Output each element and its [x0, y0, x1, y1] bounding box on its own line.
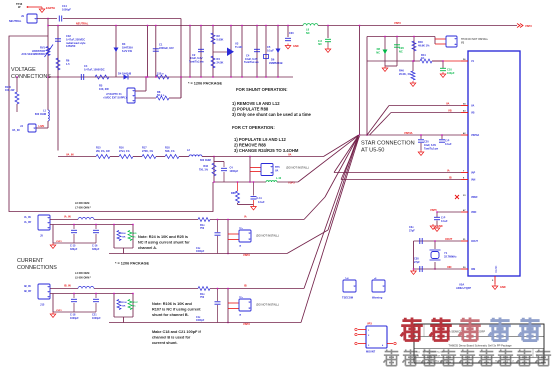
pin MOUNT 3 — [355, 342, 366, 344]
wire subckt top — [367, 36, 435, 38]
svg-text:20.0K, 1%: 20.0K, 1% — [399, 72, 412, 76]
wire chA vsp3 diag — [287, 136, 359, 254]
svg-text:2200uF, 16V: 2200uF, 16V — [159, 46, 174, 50]
pin VB — [461, 110, 475, 115]
label IB_IN input — [24, 284, 32, 293]
wire star to VB — [370, 113, 392, 136]
net label LIVE — [39, 124, 45, 128]
svg-text:125/250: 125/250 — [66, 44, 76, 48]
svg-text:AVX-VE24M00580K: AVX-VE24M00580K — [21, 52, 45, 56]
svg-text:(DO NOT INSTALL): (DO NOT INSTALL) — [256, 303, 279, 307]
svg-text:Make C18 and C21 100pF if: Make C18 and C21 100pF if — [152, 330, 201, 334]
svg-text:VSP3: VSP3 — [525, 24, 532, 28]
svg-text:R106: R106 — [122, 302, 128, 304]
svg-text:1) POPULATE L9 AND L12: 1) POPULATE L9 AND L12 — [234, 137, 287, 142]
svg-text:FOR CT OPERATION:: FOR CT OPERATION: — [232, 125, 275, 130]
net label chA ia — [244, 215, 247, 219]
inductor L1 — [35, 109, 49, 122]
wire rail IAN — [341, 136, 461, 180]
note ct 3 — [234, 148, 299, 153]
svg-text:0.47uF, 250VDC: 0.47uF, 250VDC — [66, 37, 85, 41]
svg-text:NC: NC — [133, 236, 137, 238]
capacitor C4 tant — [244, 49, 260, 64]
svg-text:AD62+TQFP: AD62+TQFP — [456, 286, 471, 290]
wire divider to header — [213, 157, 215, 183]
svg-text:(DO NOT INSTALL): (DO NOT INSTALL) — [286, 166, 309, 170]
svg-text:27pF: 27pF — [414, 261, 420, 264]
resistor R6 — [56, 58, 70, 70]
inductor L2 — [187, 149, 214, 162]
svg-text:D4 1N4148: D4 1N4148 — [118, 72, 132, 76]
svg-text:VA: VA — [471, 105, 474, 108]
wire chA second — [50, 224, 133, 226]
connector J5 — [38, 215, 50, 238]
connector TSECOM — [342, 278, 356, 300]
pin IAN — [461, 178, 476, 182]
varistor RV1 — [45, 45, 54, 58]
svg-text:VB: VB — [471, 112, 475, 115]
wire C6nc column — [327, 25, 328, 38]
ground crystal top — [430, 224, 443, 230]
svg-text:32.768kHz: 32.768kHz — [444, 254, 457, 258]
wire subckt gnd — [382, 66, 397, 72]
svg-text:27pF: 27pF — [409, 229, 415, 232]
pin MOUNT 1 — [355, 328, 366, 330]
svg-text:C1: C1 — [159, 43, 163, 47]
svg-text:2: 2 — [368, 335, 370, 337]
wire chA vsp3 rail — [109, 248, 287, 257]
connector J4 — [12, 124, 36, 132]
wire VA header vert — [249, 157, 251, 183]
svg-text:R25: R25 — [133, 233, 138, 235]
svg-text:330pF: 330pF — [92, 248, 100, 251]
svg-text:NEUTRAL: NEUTRAL — [9, 19, 22, 23]
svg-text:U5A: U5A — [459, 283, 464, 287]
svg-text:VA_IN: VA_IN — [66, 153, 74, 157]
svg-text:Note: R106 is 10K and: Note: R106 is 10K and — [152, 302, 193, 306]
svg-text:IB_IN: IB_IN — [24, 284, 31, 288]
inductor chA filter — [78, 218, 94, 220]
label 1206 package bottom — [115, 262, 149, 266]
test point TP16 label — [16, 2, 23, 9]
svg-text:1000pF: 1000pF — [92, 317, 101, 320]
svg-text:NC: NC — [399, 49, 403, 53]
svg-text:VREF: VREF — [471, 196, 478, 199]
connector TP5 VA header — [261, 164, 309, 176]
svg-text:C4: C4 — [246, 53, 250, 57]
capacitor C37 — [409, 226, 422, 244]
note chA 0 — [138, 235, 188, 239]
svg-text:D6: D6 — [271, 57, 275, 61]
svg-text:600 OHM: 600 OHM — [200, 159, 211, 162]
svg-text:5.05K: 5.05K — [217, 37, 224, 41]
note chB 0 — [152, 302, 193, 306]
svg-text:J15: J15 — [40, 303, 45, 307]
note ct 2 — [234, 143, 267, 148]
svg-text:R107 is NC if using current: R107 is NC if using current — [152, 308, 201, 312]
svg-text:L8: L8 — [306, 28, 310, 32]
connector J7 — [103, 88, 135, 103]
wire crystal left — [413, 241, 415, 269]
svg-text:VSP3A: VSP3A — [471, 134, 479, 137]
wire header V1 stubs — [435, 37, 446, 45]
pin MOUNT 4 — [387, 342, 396, 344]
svg-text:IA: IA — [239, 313, 242, 316]
capacitor C4 — [81, 64, 104, 80]
svg-text:* = 1206 PACKAGE: * = 1206 PACKAGE — [115, 262, 149, 266]
wire C30 column — [287, 25, 288, 37]
wire rail VSP3A — [360, 131, 462, 135]
svg-text:NEUTRAL: NEUTRAL — [76, 21, 89, 25]
wire chB vsp3 diag — [301, 137, 359, 323]
svg-text:R46: R46 — [399, 69, 404, 73]
IC U5 ADE7758 — [456, 51, 520, 290]
connector TP15 V1 — [446, 36, 489, 47]
pin IAP — [461, 171, 476, 175]
resistor R110 — [5, 76, 19, 112]
note chB 2 — [152, 313, 189, 317]
connector chA header — [239, 228, 279, 247]
wire chA sig diag — [304, 136, 359, 220]
svg-text:V1: V1 — [461, 41, 465, 44]
svg-text:C2: C2 — [192, 53, 196, 57]
svg-text:VA_IN: VA_IN — [12, 128, 20, 132]
resistor R24 — [117, 231, 126, 241]
svg-text:+5VDC EXT SUPPLY: +5VDC EXT SUPPLY — [103, 96, 127, 99]
ground C6 — [325, 47, 331, 53]
connector MOUNT — [366, 323, 387, 354]
svg-text:1000pF: 1000pF — [196, 319, 205, 322]
zener D6 — [269, 49, 283, 65]
svg-text:NC: NC — [318, 42, 322, 46]
capacitor chA series — [196, 219, 221, 254]
svg-text:IA_IN': IA_IN' — [24, 220, 32, 224]
resistor R32 — [199, 163, 216, 176]
net label VSP3 va — [288, 181, 295, 185]
wire chB gnd rail — [50, 294, 96, 318]
svg-text:24.5K: 24.5K — [217, 60, 224, 64]
svg-text:AT U5-50: AT U5-50 — [361, 148, 384, 154]
resistor R25 — [128, 231, 137, 241]
svg-text:VB: VB — [448, 108, 452, 112]
wire R8 up — [169, 76, 182, 98]
ground C30 — [285, 44, 299, 50]
svg-text:IB_IN': IB_IN' — [24, 289, 32, 293]
svg-text:IA: IA — [447, 168, 450, 172]
pin VDD — [461, 209, 476, 214]
capacitor C5 — [264, 45, 275, 59]
svg-text:ZMM5231B: ZMM5231B — [269, 61, 283, 65]
ground crystal bottom — [411, 268, 417, 274]
svg-text:10K: 10K — [122, 236, 126, 238]
note chB 1 — [152, 308, 201, 312]
svg-text:2M, 1%, 1W: 2M, 1%, 1W — [96, 150, 110, 153]
svg-text:0.1uF: 0.1uF — [441, 220, 448, 223]
note chA 1 — [138, 241, 190, 245]
svg-text:9: 9 — [492, 280, 494, 282]
svg-text:channel A.: channel A. — [138, 246, 157, 250]
resistor R8 — [156, 90, 169, 100]
note shunt 2 — [232, 107, 269, 112]
svg-text:NC if using current shunt for: NC if using current shunt for — [138, 241, 190, 245]
net label IB_IN — [64, 284, 71, 288]
resistor R5 — [95, 75, 109, 91]
svg-text:L1: L1 — [43, 109, 47, 113]
svg-text:33: 33 — [463, 195, 466, 197]
svg-text:IAN: IAN — [471, 179, 476, 182]
diode D4 — [118, 72, 132, 80]
svg-text:Y1: Y1 — [444, 251, 448, 255]
wire chB header stub — [227, 288, 239, 323]
capacitor C32 — [55, 34, 86, 48]
svg-text:R6: R6 — [66, 59, 70, 63]
svg-text:750: 750 — [200, 227, 205, 230]
svg-text:D8: D8 — [377, 47, 381, 51]
svg-text:C-11: C-11 — [257, 197, 263, 200]
svg-text:J4: J4 — [20, 124, 23, 128]
svg-text:* = 1206 PACKAGE: * = 1206 PACKAGE — [188, 82, 222, 86]
svg-text:DGND: DGND — [495, 265, 498, 273]
note shunt 3 — [232, 112, 312, 117]
svg-text:2) POPULATE R88: 2) POPULATE R88 — [232, 107, 269, 112]
connector J9 — [9, 14, 37, 23]
wire rail IAP — [334, 136, 461, 173]
wire star feed 2 — [366, 37, 367, 136]
capacitor C10 — [440, 60, 455, 77]
svg-text:TL431: TL431 — [235, 45, 243, 49]
svg-text:J5: J5 — [40, 234, 43, 238]
wire star feed — [359, 25, 360, 136]
svg-text:10uF, 6.3V: 10uF, 6.3V — [190, 56, 203, 60]
svg-text:Tant/TaJ.uw: Tant/TaJ.uw — [424, 147, 438, 150]
svg-text:VDD: VDD — [471, 211, 476, 214]
svg-text:GND: GND — [437, 225, 443, 228]
wire VA bottom rail — [213, 181, 266, 182]
svg-text:10K: 10K — [122, 305, 126, 307]
svg-text:EARTH: EARTH — [46, 6, 55, 10]
svg-text:600 OHM: 600 OHM — [35, 112, 46, 116]
svg-text:Warning: Warning — [372, 296, 383, 300]
svg-text:NC: NC — [306, 31, 310, 35]
pin MOUNT 2 — [355, 333, 366, 335]
connector chB header — [239, 297, 279, 316]
wire r88 gnd — [238, 203, 257, 210]
wire rail NEUTRAL — [48, 19, 303, 26]
pin VREF no-connect — [455, 195, 478, 199]
svg-text:VSP3: VSP3 — [56, 241, 62, 243]
wire chA gnd rail — [50, 225, 96, 249]
inductor L8 — [303, 24, 318, 35]
svg-text:VP3: VP3 — [367, 323, 372, 326]
capacitor C14 — [59, 4, 71, 22]
wire chB top — [50, 288, 304, 290]
resistor chA shunt-sel box — [113, 224, 133, 248]
svg-text:Note: R24 is 10K and R25 is: Note: R24 is 10K and R25 is — [138, 235, 188, 239]
wire supply column x231 — [230, 25, 231, 78]
svg-text:GND: GND — [293, 45, 299, 48]
wire VA sig diag — [324, 135, 359, 157]
wire TP16 to earth — [27, 6, 42, 8]
svg-text:LIVE: LIVE — [39, 124, 45, 128]
capacitor C2 — [189, 49, 205, 63]
net label IA_IN — [64, 215, 71, 219]
svg-text:L2: L2 — [187, 149, 191, 152]
ground EARTH — [39, 6, 55, 13]
capacitor chB series — [196, 288, 221, 323]
svg-text:750: 750 — [200, 296, 205, 299]
svg-text:150 o: 150 o — [157, 72, 164, 76]
note ct operation — [232, 125, 275, 130]
resistor R15 — [96, 147, 119, 159]
wire J4 to column — [36, 121, 48, 128]
svg-text:L7 600 OHM *: L7 600 OHM * — [75, 207, 91, 210]
label 1206 package top — [188, 82, 222, 86]
resistor R17 — [142, 147, 165, 159]
svg-text:CONNECTIONS: CONNECTIONS — [17, 265, 57, 271]
svg-text:R40: R40 — [418, 40, 423, 44]
resistor R107 — [128, 300, 139, 310]
wire divider rail — [58, 153, 96, 157]
note chB 3 — [152, 330, 201, 334]
wire J7 pin1 — [135, 76, 147, 91]
svg-text:IA: IA — [244, 215, 247, 219]
wire D3 column — [115, 25, 116, 77]
wire star to VA — [367, 106, 389, 136]
svg-text:1000pF: 1000pF — [70, 317, 79, 320]
svg-text:330pF: 330pF — [70, 248, 78, 251]
svg-text:6.2V 1W: 6.2V 1W — [122, 49, 132, 53]
svg-text:IA_IN: IA_IN — [64, 215, 71, 219]
svg-text:R2: R2 — [217, 34, 221, 38]
svg-text:1000pF: 1000pF — [62, 7, 71, 11]
svg-text:TH8035 Demo Board Schematic Se: TH8035 Demo Board Schematic Self 3x PP P… — [448, 344, 512, 348]
svg-text:0.47uF, 1000VDC: 0.47uF, 1000VDC — [84, 67, 105, 71]
svg-text:radial lead style: radial lead style — [66, 41, 86, 45]
svg-text:IA: IA — [239, 244, 242, 247]
svg-text:100, 2W: 100, 2W — [99, 87, 109, 91]
svg-text:1K: 1K — [421, 56, 424, 60]
wire VA sig rail — [213, 152, 323, 157]
svg-text:Date:: Date: — [416, 360, 422, 363]
svg-text:270K, 1%: 270K, 1% — [142, 150, 154, 153]
connector Warning — [372, 278, 385, 300]
svg-text:0.1uF: 0.1uF — [258, 201, 265, 204]
wire va vsp3 diag — [277, 135, 359, 182]
capacitor chA c-b — [92, 224, 100, 251]
svg-text:C30: C30 — [289, 32, 294, 35]
capacitor C6 NC — [318, 39, 331, 47]
wire chA top — [50, 219, 304, 221]
svg-text:Tant/TaJ.uw: Tant/TaJ.uw — [189, 60, 205, 64]
label IA_IN input — [24, 215, 32, 224]
voltage connections box — [9, 36, 213, 212]
note shunt 1 — [232, 101, 280, 106]
wire chA header stub — [227, 219, 239, 254]
wire supply column x201 — [200, 25, 201, 78]
svg-text:VOLTAGE: VOLTAGE — [11, 67, 36, 73]
svg-text:C32: C32 — [66, 34, 71, 38]
wire supply column x242 — [241, 25, 242, 78]
capacitor C40 — [434, 211, 448, 231]
svg-text:IB: IB — [244, 284, 247, 288]
wire V1 row — [367, 60, 461, 62]
port VSP3 arrow — [517, 24, 532, 29]
svg-text:MOUNT: MOUNT — [366, 351, 376, 354]
svg-text:IB: IB — [449, 175, 452, 179]
svg-text:VSP3A: VSP3A — [404, 131, 413, 135]
svg-text:R24: R24 — [122, 232, 127, 235]
label L6 L7 — [75, 202, 91, 210]
svg-text:L4 600 OHM: L4 600 OHM — [75, 272, 89, 275]
svg-text:XIN: XIN — [471, 268, 475, 271]
resistor R4 — [211, 56, 224, 68]
capacitor chA c-a — [70, 224, 78, 251]
wire supply column x190 — [189, 25, 190, 78]
svg-text:27x4, 1%: 27x4, 1% — [119, 150, 130, 153]
wire divider column — [57, 25, 58, 151]
capacitor chB c-a — [70, 293, 79, 320]
capacitor C38 — [414, 258, 422, 272]
svg-text:3) Only one shunt can be used: 3) Only one shunt can be used at a time — [232, 112, 312, 117]
wire header stubs — [250, 168, 261, 172]
svg-text:10uF, 6.3V: 10uF, 6.3V — [245, 57, 258, 61]
svg-text:1.5: 1.5 — [66, 62, 70, 66]
svg-text:VSP5: VSP5 — [430, 208, 437, 212]
svg-text:IA_IN: IA_IN — [24, 215, 31, 219]
svg-text:4: 4 — [382, 344, 384, 347]
resistor chB shunt-sel box — [113, 293, 133, 317]
svg-text:C-6: C-6 — [318, 39, 323, 43]
svg-text:R5: R5 — [99, 84, 103, 88]
wire XOUT rail — [414, 237, 462, 241]
net label chB ib — [244, 284, 247, 288]
label L4 L5 — [75, 272, 91, 280]
inductor L10 NC — [266, 177, 282, 182]
wire top rail live — [63, 18, 181, 20]
svg-text:(DO NOT INSTALL): (DO NOT INSTALL) — [256, 234, 279, 238]
svg-text:750, 1%: 750, 1% — [199, 168, 209, 171]
capacitor C2P — [439, 134, 452, 146]
svg-text:1000pF: 1000pF — [230, 170, 239, 173]
net label NEUTRAL — [76, 21, 89, 25]
svg-text:L6 600 OHM: L6 600 OHM — [75, 202, 89, 205]
pin VA — [461, 103, 474, 108]
capacitor C30 — [285, 32, 294, 41]
zener D8 NC — [376, 36, 387, 66]
note chB 5 — [152, 341, 178, 345]
pin XOUT — [461, 239, 478, 243]
svg-text:1) REMOVE L9 AND L12: 1) REMOVE L9 AND L12 — [232, 101, 280, 106]
wire chB sig diag — [304, 136, 358, 289]
svg-text:L-10: L-10 — [276, 177, 282, 180]
capacitor C1 — [153, 43, 174, 52]
wire rail VA — [389, 101, 461, 105]
wire J9 to node — [37, 18, 57, 20]
resistor R46 — [399, 60, 416, 86]
wire chB vsp3 rail — [109, 317, 301, 326]
wire mid rail — [48, 76, 293, 78]
op-amp U3 TL431 — [213, 42, 243, 56]
svg-text:CURRENT: CURRENT — [17, 258, 44, 264]
svg-text:IAP: IAP — [471, 172, 476, 175]
pin VSP3A — [461, 132, 479, 137]
svg-text:D3: D3 — [122, 42, 126, 46]
svg-text:TP5: TP5 — [275, 166, 280, 169]
capacitor C26 NC — [394, 36, 404, 66]
watermark row2 — [384, 349, 552, 365]
resistor R18 — [165, 147, 189, 159]
resistor R7 — [156, 72, 169, 79]
